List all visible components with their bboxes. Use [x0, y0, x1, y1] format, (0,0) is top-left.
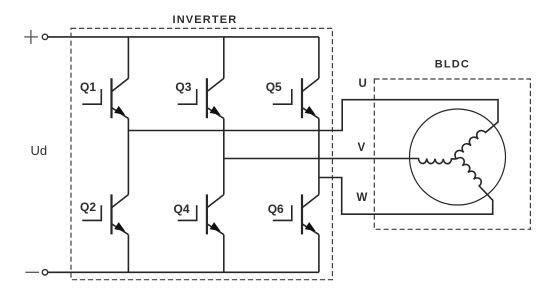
- BLDC dashed box: [374, 79, 530, 229]
- wire phase U with step and winding to star point: [128, 100, 498, 159]
- wire leg2 top: [223, 37, 225, 79]
- plus terminal symbol: [24, 30, 38, 44]
- transistor Q5: [273, 78, 319, 118]
- svg-text:Q2: Q2: [80, 200, 96, 214]
- svg-text:Q1: Q1: [80, 80, 96, 94]
- bottom terminal circle: [42, 270, 47, 275]
- wire leg3 top: [318, 37, 320, 79]
- transistor Q2: [82, 194, 128, 234]
- motor circle: [410, 109, 506, 205]
- svg-text:Q3: Q3: [175, 80, 191, 94]
- wire leg2 middle: [223, 118, 225, 194]
- wire leg3 bottom: [318, 235, 320, 273]
- transistor Q3: [178, 78, 224, 118]
- svg-text:Q5: Q5: [266, 80, 282, 94]
- minus terminal symbol: [25, 271, 39, 273]
- wire leg2 bottom: [223, 235, 225, 273]
- wire phase V with winding to star point: [224, 159, 457, 164]
- INVERTER dashed box: [71, 28, 332, 279]
- svg-text:Ud: Ud: [31, 143, 48, 158]
- svg-text:Q4: Q4: [174, 202, 190, 216]
- transistor Q1: [82, 78, 128, 118]
- svg-text:Q6: Q6: [268, 202, 284, 216]
- top terminal circle: [42, 34, 47, 39]
- svg-text:U: U: [359, 78, 367, 90]
- svg-text:BLDC: BLDC: [435, 59, 470, 71]
- svg-text:V: V: [358, 142, 366, 154]
- transistor Q6: [273, 194, 319, 234]
- wire bottom DC rail: [48, 271, 319, 273]
- wire leg1 top (rail to Q1 collector): [127, 37, 129, 79]
- wire leg1 middle (Q1 emitter to Q2 collector): [127, 118, 129, 194]
- transistor Q4: [178, 194, 224, 234]
- wire top DC rail: [48, 36, 319, 38]
- wire phase W with step and winding to star point: [319, 158, 493, 215]
- svg-text:W: W: [357, 192, 368, 204]
- wire leg1 bottom (Q2 emitter to rail): [127, 235, 129, 273]
- wire leg3 middle: [318, 118, 320, 194]
- svg-text:INVERTER: INVERTER: [173, 14, 238, 26]
